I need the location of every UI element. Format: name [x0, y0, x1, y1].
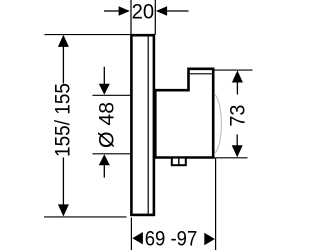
- dim 73 bottom shaft: [236, 135, 238, 147]
- svg-text:69 -97: 69 -97: [145, 226, 198, 250]
- stem cap inner line: [190, 73, 212, 75]
- dim 69-97 left arrowhead: [132, 232, 143, 244]
- dim O48 bottom arrow shaft: [103, 165, 105, 178]
- dim 155/155 bottom arrowhead: [58, 204, 69, 216]
- svg-text:Ø 48: Ø 48: [95, 102, 119, 148]
- escutcheon plate outline: [131, 35, 154, 215]
- dim 73 top shaft: [236, 81, 238, 95]
- dim 69-97 right arrowhead: [204, 233, 215, 245]
- dim 20 right arrowhead: [156, 6, 167, 16]
- dim 155/155 bottom line: [44, 216, 127, 218]
- dim 20 right shaft: [167, 10, 189, 12]
- dim 69-97 right extension line: [215, 159, 217, 250]
- dim O48 top arrowhead: [99, 84, 110, 95]
- bottom tab: [172, 158, 186, 166]
- dim 155/155 top shaft: [62, 45, 64, 84]
- dim 73 bottom arrowhead: [232, 145, 243, 157]
- dim 20 left extension line: [130, 0, 132, 35]
- svg-text:73: 73: [226, 105, 250, 127]
- dim O48 bottom arrowhead: [99, 154, 110, 165]
- handle face arc: [215, 95, 221, 154]
- dim O48 top line: [92, 94, 130, 96]
- svg-text:155/ 155: 155/ 155: [51, 83, 75, 157]
- dim 69-97 left extension line: [130, 218, 132, 250]
- svg-text:20: 20: [132, 0, 155, 23]
- dim 20 left shaft: [104, 10, 120, 12]
- dim 73 bottom line: [213, 157, 247, 159]
- dim 155/155 bottom shaft: [62, 158, 64, 207]
- dim O48 bottom line: [92, 153, 130, 155]
- dim 73 top line: [214, 69, 253, 71]
- valve body with stem outline: [155, 69, 213, 158]
- dim 20 left arrowhead: [119, 6, 130, 16]
- plate inner step line: [147, 37, 149, 214]
- dim 155/155 top arrowhead: [58, 35, 69, 47]
- dim 155/155 top line: [45, 34, 132, 36]
- dim 20 right extension line: [154, 0, 156, 35]
- dim O48 top arrow shaft: [103, 67, 105, 86]
- bottom tab divider: [178, 158, 180, 165]
- dim 73 top arrowhead: [232, 70, 243, 82]
